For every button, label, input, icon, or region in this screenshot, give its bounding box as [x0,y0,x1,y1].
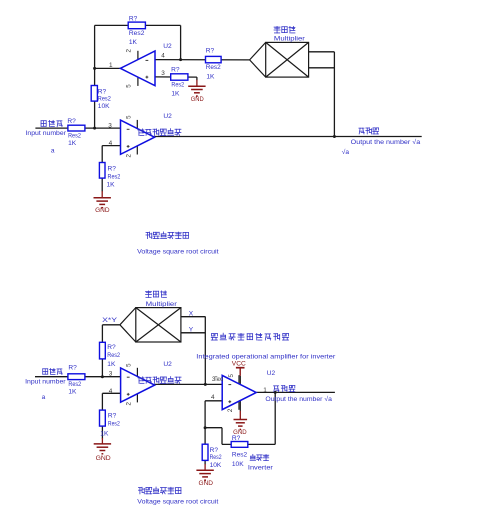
svg-text:Res2: Res2 [171,81,184,88]
svg-text:1: 1 [263,387,267,394]
svg-text:4: 4 [109,140,113,147]
svg-text:VCC: VCC [232,361,246,368]
svg-text:1: 1 [109,62,113,69]
svg-text:10K: 10K [210,462,222,469]
svg-text:5: 5 [126,363,133,367]
svg-text:U2: U2 [267,370,276,377]
svg-text:4: 4 [109,388,113,395]
svg-text:a: a [42,394,46,401]
svg-text:R?: R? [108,165,117,172]
svg-text:2: 2 [125,49,132,53]
svg-text:2: 2 [126,154,133,158]
svg-text:Res2: Res2 [68,381,81,388]
svg-text:3: 3 [161,70,165,77]
svg-text:Res2: Res2 [108,421,120,428]
svg-text:R?: R? [206,48,215,55]
svg-text:Output the number √a: Output the number √a [351,138,421,146]
svg-text:Res2: Res2 [232,452,248,459]
svg-text:Multiplier: Multiplier [274,35,306,42]
svg-text:R?: R? [129,16,138,23]
svg-text:R?: R? [68,365,77,372]
svg-text:Voltage square root circuit: Voltage square root circuit [137,498,218,505]
svg-text:U2: U2 [163,361,172,368]
svg-text:Res2: Res2 [206,64,221,71]
svg-text:Input number: Input number [26,130,67,137]
svg-text:1K: 1K [171,91,180,98]
svg-text:1K: 1K [107,182,116,189]
svg-text:2: 2 [126,401,133,405]
svg-text:R?: R? [98,89,107,96]
svg-text:√a: √a [342,148,350,156]
svg-text:3: 3 [108,122,112,129]
svg-text:1K: 1K [68,389,77,396]
svg-text:1K: 1K [107,361,116,368]
svg-text:1K: 1K [129,39,138,46]
svg-text:2: 2 [227,408,234,412]
svg-text:GND: GND [191,96,204,103]
svg-text:1K: 1K [206,73,215,80]
svg-text:Text: Text [215,376,223,383]
svg-text:Res2: Res2 [98,96,111,103]
svg-text:3: 3 [109,370,113,377]
svg-text:X: X [189,311,194,318]
svg-text:X*Y: X*Y [102,317,118,324]
svg-text:10K: 10K [98,103,110,110]
svg-text:Inverter: Inverter [248,464,274,471]
svg-text:4: 4 [211,394,215,401]
svg-text:Res2: Res2 [68,133,81,140]
svg-text:Res2: Res2 [129,30,145,37]
svg-text:Res2: Res2 [107,352,120,359]
svg-text:Input number: Input number [25,379,66,386]
svg-text:Res2: Res2 [210,454,222,461]
svg-text:4: 4 [161,52,165,59]
svg-text:U2: U2 [163,43,172,50]
svg-text:R?: R? [210,447,219,454]
svg-text:a: a [51,148,55,155]
svg-text:R?: R? [171,66,180,73]
svg-text:GND: GND [96,455,112,462]
svg-text:U2: U2 [163,113,172,120]
svg-text:Output the number √a: Output the number √a [265,395,332,403]
svg-text:GND: GND [95,207,110,214]
svg-text:Integrated operational amplifi: Integrated operational amplifier for inv… [196,353,336,360]
svg-text:Voltage square root circuit: Voltage square root circuit [137,249,219,256]
svg-text:5: 5 [126,115,133,119]
svg-text:Y: Y [189,326,194,333]
svg-text:GND: GND [199,480,214,487]
svg-text:Res2: Res2 [108,174,121,181]
svg-text:R?: R? [107,344,116,351]
svg-text:R?: R? [108,413,117,420]
svg-text:5: 5 [228,374,235,378]
svg-text:R?: R? [232,435,241,442]
svg-text:1K: 1K [68,140,77,147]
svg-text:Multiplier: Multiplier [146,301,178,308]
svg-text:10K: 10K [232,461,244,468]
svg-text:1K: 1K [100,431,109,438]
svg-text:R?: R? [67,118,76,125]
svg-text:5: 5 [125,84,132,88]
